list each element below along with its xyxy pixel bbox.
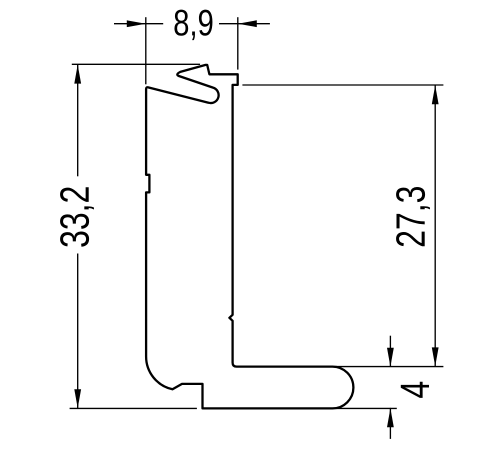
- dimension 27,3: dimension line: [434, 85, 436, 366]
- arrowhead 8,9 right: [238, 20, 257, 27]
- profile cross-section outline: [146, 65, 353, 409]
- label 33,2: [60, 187, 94, 246]
- arrowhead 8,9 left: [127, 20, 146, 27]
- arrowhead 33,2 bottom: [74, 389, 81, 408]
- label 27,3: [396, 187, 430, 246]
- arrowhead 4 lower: [387, 408, 394, 427]
- dimension 27,3: extension lines: [242, 85, 443, 367]
- arrowhead 4 upper: [387, 348, 394, 367]
- dimension 4: dimension line segments: [389, 336, 391, 439]
- dimension 8,9: dimension line segments: [114, 23, 270, 25]
- label 8,9: [174, 10, 212, 41]
- dimension 8,9: extension lines: [146, 17, 238, 84]
- arrowhead 27,3 bottom: [432, 347, 439, 366]
- dimension 33,2: dimension line segments: [77, 65, 79, 409]
- dimension 33,2: extension lines: [70, 64, 201, 408]
- dimension 4: extension line: [331, 407, 397, 409]
- arrowhead 27,3 top: [432, 85, 439, 104]
- arrowhead 33,2 top: [74, 65, 81, 84]
- label 4: [401, 382, 429, 398]
